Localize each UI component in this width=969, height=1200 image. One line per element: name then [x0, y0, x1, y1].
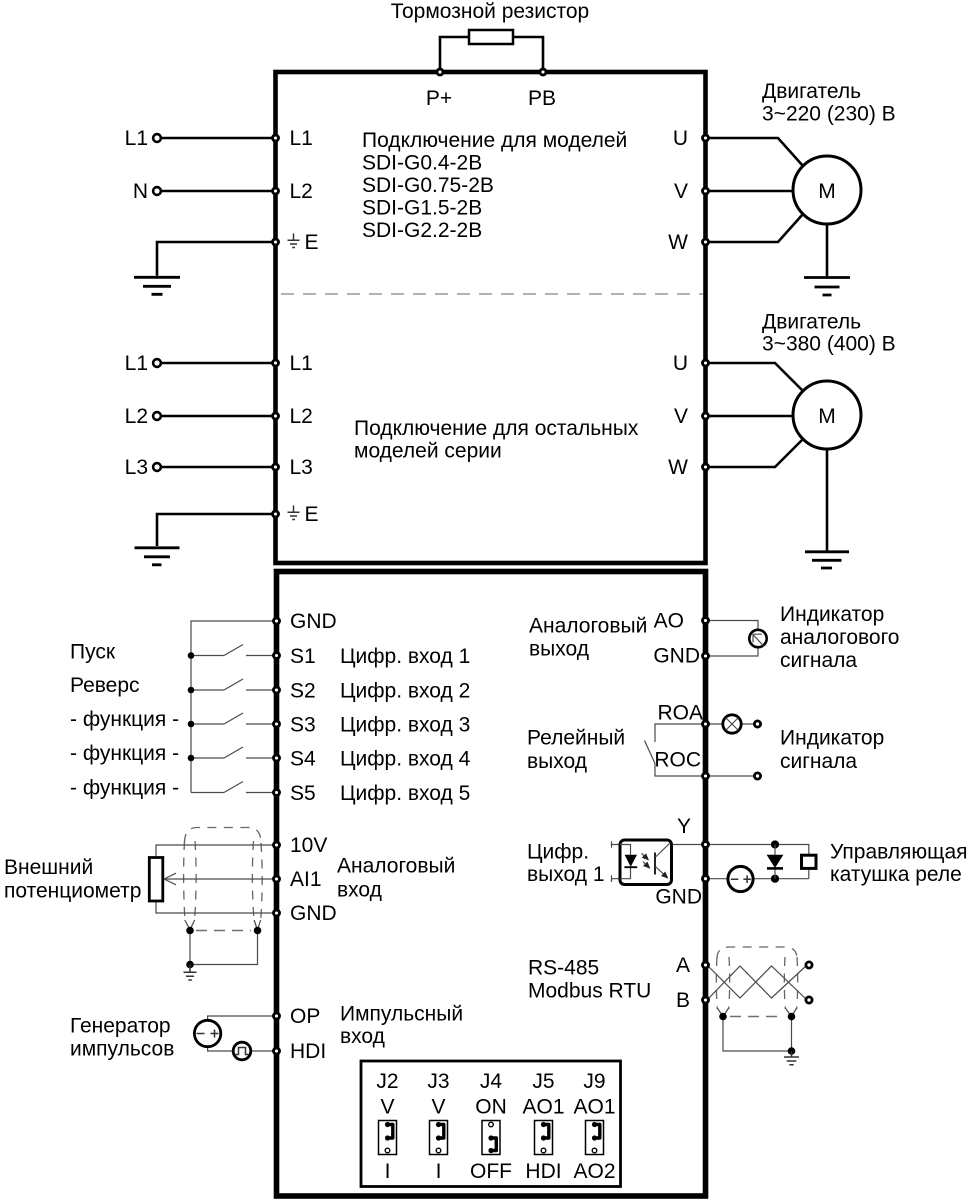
svg-text:S4: S4: [290, 748, 316, 771]
svg-text:W: W: [668, 456, 688, 479]
svg-text:S1: S1: [290, 645, 316, 668]
svg-text:выход 1: выход 1: [527, 863, 605, 886]
svg-text:V: V: [431, 1096, 445, 1119]
svg-text:Двигатель: Двигатель: [762, 80, 861, 103]
svg-text:J9: J9: [583, 1070, 605, 1093]
svg-text:Цифр. вход 1: Цифр. вход 1: [340, 645, 470, 668]
svg-text:ROA: ROA: [657, 702, 703, 725]
svg-text:Подключение для моделей: Подключение для моделей: [362, 129, 627, 152]
svg-text:SDI-G1.5-2В: SDI-G1.5-2В: [362, 197, 482, 220]
svg-text:сигнала: сигнала: [780, 649, 857, 672]
svg-text:E: E: [305, 231, 319, 254]
svg-text:10V: 10V: [290, 834, 327, 857]
svg-text:GND: GND: [290, 610, 337, 633]
svg-text:Modbus RTU: Modbus RTU: [528, 980, 651, 1003]
svg-text:B: B: [676, 989, 690, 1012]
svg-text:Цифр.: Цифр.: [527, 841, 589, 864]
svg-text:L3: L3: [125, 456, 148, 479]
svg-text:Импульсный: Импульсный: [340, 1003, 463, 1026]
svg-text:J4: J4: [480, 1070, 503, 1093]
svg-text:OFF: OFF: [470, 1160, 512, 1183]
svg-text:Цифр. вход 3: Цифр. вход 3: [340, 714, 470, 737]
svg-text:Внешний: Внешний: [4, 856, 93, 879]
svg-text:RS-485: RS-485: [528, 957, 599, 980]
svg-text:Тормозной резистор: Тормозной резистор: [391, 0, 589, 23]
svg-text:- функция -: - функция -: [70, 777, 179, 800]
svg-text:J2: J2: [376, 1070, 398, 1093]
svg-text:ROC: ROC: [654, 749, 701, 772]
svg-text:Аналоговый: Аналоговый: [529, 615, 647, 638]
svg-text:V: V: [674, 405, 688, 428]
svg-text:I: I: [436, 1160, 442, 1183]
svg-text:Аналоговый: Аналоговый: [337, 855, 455, 878]
svg-text:3~220 (230) В: 3~220 (230) В: [762, 103, 896, 126]
svg-text:AO2: AO2: [573, 1160, 615, 1183]
svg-text:Управляющая: Управляющая: [830, 841, 968, 864]
svg-text:Индикатор: Индикатор: [780, 603, 884, 626]
svg-text:Цифр. вход 4: Цифр. вход 4: [340, 748, 471, 771]
svg-text:3~380 (400) В: 3~380 (400) В: [762, 333, 896, 356]
svg-text:катушка реле: катушка реле: [830, 863, 962, 886]
svg-text:P+: P+: [426, 87, 452, 110]
svg-text:PB: PB: [528, 87, 556, 110]
svg-text:Двигатель: Двигатель: [762, 311, 861, 334]
svg-text:Подключение для остальных: Подключение для остальных: [354, 417, 639, 440]
svg-text:A: A: [676, 954, 690, 977]
svg-text:W: W: [668, 231, 688, 254]
svg-text:HDI: HDI: [525, 1160, 561, 1183]
svg-text:J5: J5: [532, 1070, 554, 1093]
svg-text:E: E: [305, 503, 319, 526]
svg-text:Цифр. вход 5: Цифр. вход 5: [340, 782, 470, 805]
svg-text:AO: AO: [654, 610, 684, 633]
svg-text:GND: GND: [655, 886, 702, 909]
svg-text:I: I: [385, 1160, 391, 1183]
svg-text:GND: GND: [653, 645, 700, 668]
svg-text:вход: вход: [340, 1025, 385, 1048]
svg-text:М: М: [818, 405, 836, 428]
svg-text:U: U: [673, 352, 688, 375]
svg-text:L1: L1: [290, 127, 313, 150]
svg-text:HDI: HDI: [290, 1040, 326, 1063]
svg-text:S3: S3: [290, 714, 316, 737]
svg-text:Релейный: Релейный: [527, 727, 625, 750]
svg-text:L3: L3: [290, 456, 313, 479]
svg-text:L1: L1: [290, 352, 313, 375]
svg-text:SDI-G0.4-2В: SDI-G0.4-2В: [362, 152, 482, 175]
svg-text:AI1: AI1: [290, 868, 322, 891]
svg-text:сигнала: сигнала: [780, 750, 857, 773]
svg-text:S5: S5: [290, 782, 316, 805]
svg-text:AO1: AO1: [522, 1096, 564, 1119]
svg-text:V: V: [380, 1096, 394, 1119]
svg-text:Индикатор: Индикатор: [780, 727, 884, 750]
svg-text:- функция -: - функция -: [70, 708, 179, 731]
svg-text:U: U: [673, 127, 688, 150]
svg-text:ON: ON: [475, 1096, 507, 1119]
svg-text:L1: L1: [125, 127, 148, 150]
svg-text:Цифр. вход 2: Цифр. вход 2: [340, 680, 470, 703]
svg-text:вход: вход: [337, 879, 382, 902]
svg-text:L2: L2: [125, 405, 148, 428]
svg-text:М: М: [818, 180, 836, 203]
svg-text:OP: OP: [290, 1005, 320, 1028]
svg-text:L2: L2: [290, 405, 313, 428]
svg-text:SDI-G0.75-2В: SDI-G0.75-2В: [362, 174, 494, 197]
svg-text:выход: выход: [527, 750, 587, 773]
svg-text:выход: выход: [529, 638, 589, 661]
svg-text:Пуск: Пуск: [70, 641, 116, 664]
svg-text:Реверс: Реверс: [70, 674, 140, 697]
svg-text:N: N: [133, 180, 148, 203]
svg-text:аналогового: аналогового: [780, 626, 899, 649]
svg-text:L1: L1: [125, 352, 148, 375]
svg-text:Y: Y: [677, 815, 691, 838]
svg-text:потенциометр: потенциометр: [4, 880, 141, 903]
svg-text:SDI-G2.2-2В: SDI-G2.2-2В: [362, 219, 482, 242]
svg-text:J3: J3: [427, 1070, 449, 1093]
svg-text:L2: L2: [290, 180, 313, 203]
svg-text:AO1: AO1: [573, 1096, 615, 1119]
svg-text:моделей серии: моделей серии: [354, 440, 502, 463]
svg-text:импульсов: импульсов: [70, 1038, 174, 1061]
svg-text:Генератор: Генератор: [70, 1015, 171, 1038]
svg-text:GND: GND: [290, 902, 337, 925]
svg-text:- функция -: - функция -: [70, 742, 179, 765]
svg-text:V: V: [674, 180, 688, 203]
svg-text:S2: S2: [290, 680, 316, 703]
